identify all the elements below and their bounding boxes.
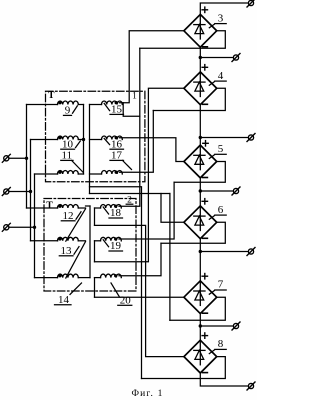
diode bridge 7 <box>184 281 217 314</box>
input terminal 3 <box>4 225 9 230</box>
svg-text:4: 4 <box>218 70 224 82</box>
winding 16 polarity dot <box>115 136 118 139</box>
bridge 4 diode symbol <box>199 72 201 97</box>
wire winding 13 right lead <box>78 240 85 242</box>
node tap 4-5 <box>199 136 202 139</box>
wire winding 9 to star rail <box>78 104 83 106</box>
winding 19 coil <box>101 237 122 240</box>
bridge 8 minus mark <box>203 372 208 374</box>
svg-text:T: T <box>46 200 53 211</box>
bridge 3 plus mark <box>202 9 207 11</box>
diode bridge 6 <box>184 206 217 239</box>
wire winding 20 left lead <box>95 277 101 279</box>
svg-text:3: 3 <box>218 12 224 24</box>
wire bridge 3 minus to bridge 4 plus <box>199 47 201 72</box>
svg-text:7: 7 <box>218 279 224 291</box>
wire T2 middle rail <box>89 206 91 278</box>
winding 12 polarity dot <box>58 205 61 208</box>
wire winding 19 step to bridge 4 AC1 <box>95 88 184 261</box>
output terminal tap 6-7 <box>248 249 253 254</box>
node T1 star junction <box>82 138 85 141</box>
wire zigzag diagonal 13-14 <box>66 242 86 278</box>
winding 20 coil <box>101 274 122 277</box>
wire bus phase B vertical <box>30 140 32 241</box>
wire winding 17 dot to bridge 4 AC2 <box>120 111 154 173</box>
wire bus phase A vertical <box>26 105 28 209</box>
node tap 3-4 <box>199 56 202 59</box>
wire bridge 3 plus output <box>200 3 248 14</box>
svg-text:Фиг. 1: Фиг. 1 <box>131 389 163 399</box>
node input 3 junction <box>33 226 36 229</box>
wire winding 12 right lead <box>78 207 85 209</box>
wire input 3 to bus <box>9 226 35 228</box>
bridge 5 diode symbol <box>199 145 201 170</box>
winding 14 polarity dot <box>58 274 61 277</box>
wire winding 19 left lead <box>95 240 101 242</box>
wire winding 16 left lead <box>90 139 102 141</box>
bridge 4 plus mark <box>202 66 207 68</box>
wire bus B to winding 13 <box>31 240 58 242</box>
wire bus C to winding 14 <box>35 277 58 279</box>
label 16 <box>104 138 109 144</box>
wire winding 16 dot to bridge 5 AC1 <box>120 138 184 162</box>
bridge 7 diode symbol <box>199 281 201 306</box>
wire bridge 6 minus to bridge 7 plus <box>199 239 201 281</box>
wire winding 11 to star rail <box>78 173 83 175</box>
output terminal tap 3-4 <box>233 55 238 60</box>
transformer T1 dash-dot enclosure <box>46 91 145 181</box>
winding 13 coil <box>58 237 79 241</box>
winding 10 coil <box>58 136 79 140</box>
svg-text:T: T <box>48 90 55 101</box>
diode bridge 3 <box>184 14 217 47</box>
wire winding 19 step vertical <box>94 241 96 262</box>
node input 1 junction <box>25 157 28 160</box>
wire winding 18 left lead <box>95 207 101 209</box>
svg-text:5: 5 <box>218 143 224 155</box>
wire input 1 to bus <box>9 157 27 159</box>
label 15 <box>104 103 109 110</box>
wire winding 15 left lead <box>90 104 102 106</box>
bridge 3 AC2 wrap wire <box>140 31 226 48</box>
wire winding 16 branch to bridge 8 AC2 <box>90 187 142 379</box>
wire bridge 5 minus to bridge 6 plus <box>199 178 201 206</box>
wire bus to winding 11 <box>35 173 58 175</box>
wire tap 4-5 <box>200 137 248 139</box>
wire winding 19 dot to bridge 5 AC2 <box>119 182 174 239</box>
bridge 4 AC2 wrap wire <box>153 88 225 110</box>
wire to bridge 6 AC1 <box>161 194 184 223</box>
diode bridge 8 <box>184 340 217 373</box>
wire winding 14 right lead <box>78 277 90 279</box>
node tap 5-6 <box>199 189 202 192</box>
wire bus to winding 9 <box>27 104 58 106</box>
bridge 7 AC2 wrap wire <box>170 297 225 320</box>
output terminal tap 4-5 <box>248 135 253 140</box>
bridge 8 diode symbol <box>199 340 201 365</box>
output terminal tap 7-8 <box>233 323 238 328</box>
wire T1 secondary common vertical <box>89 105 91 194</box>
winding 19 polarity dot <box>114 237 117 240</box>
wire zigzag diagonal 12-13 <box>66 209 86 241</box>
node tap 6-7 <box>199 250 202 253</box>
diode bridge 5 <box>184 145 217 178</box>
wire winding 18 dot to bridge 3 AC2 <box>119 48 140 206</box>
bridge 6 diode symbol <box>199 206 201 231</box>
bridge 6 minus mark <box>203 237 208 239</box>
output terminal - <box>248 383 253 388</box>
winding 11 polarity dot <box>58 171 61 174</box>
wire winding 17 left lead <box>90 173 102 175</box>
wire bridge 7 minus to bridge 8 plus <box>199 314 201 341</box>
svg-text:1: 1 <box>132 91 137 101</box>
bridge 7 plus mark <box>202 275 207 277</box>
wire winding 18 step vertical <box>94 208 96 225</box>
wire bus to winding 10 <box>31 139 58 141</box>
wire winding 20 step vertical <box>94 278 96 298</box>
winding 9 polarity dot <box>58 101 61 104</box>
winding 17 polarity dot <box>115 171 118 174</box>
wire tap 3-4 <box>200 57 233 59</box>
wire T1 primary star rail <box>83 105 85 175</box>
winding 15 coil <box>102 101 123 105</box>
transformer T2 dash-dot enclosure <box>44 199 136 292</box>
winding 9 coil <box>58 101 79 105</box>
diode bridge 4 <box>184 72 217 105</box>
output terminal tap 5-6 <box>233 188 238 193</box>
winding 14 coil <box>58 274 79 278</box>
wire bridge 4 minus to bridge 5 plus <box>199 105 201 145</box>
wire to bridge 7 AC2 <box>169 194 171 321</box>
label 18 <box>103 207 108 214</box>
winding 16 coil <box>102 136 123 140</box>
wire bus A to winding 12 <box>27 207 58 209</box>
output terminal + <box>248 0 253 5</box>
wire tap 5-6 <box>200 190 233 192</box>
winding 18 coil <box>101 205 122 209</box>
winding 20 polarity dot <box>114 274 117 277</box>
winding 17 coil <box>102 171 123 175</box>
winding 10 polarity dot <box>58 136 61 139</box>
wire winding 15 dot to bridge 3 AC1 <box>120 31 184 103</box>
input terminal 1 <box>4 156 9 161</box>
bridge 3 diode symbol <box>199 14 201 39</box>
bridge 3 minus mark <box>203 46 208 48</box>
svg-text:8: 8 <box>218 338 224 350</box>
winding 12 coil <box>58 205 79 209</box>
bridge 5 minus mark <box>203 177 208 179</box>
winding 18 polarity dot <box>114 205 117 208</box>
bridge 6 plus mark <box>202 200 207 202</box>
wire link winding 15 to winding 18 <box>123 103 140 117</box>
bridge 8 AC2 wrap wire <box>142 357 226 379</box>
winding 15 polarity dot <box>115 101 118 104</box>
node tap 7-8 <box>199 324 202 327</box>
wire tap 6-7 <box>200 251 248 253</box>
bridge 8 plus mark <box>202 335 207 337</box>
wire winding 10 to star rail <box>78 139 83 141</box>
wire bridge 8 minus output <box>200 373 248 386</box>
wire winding 20 step to bridge 7 AC1 <box>95 296 184 298</box>
bridge 5 AC2 wrap wire <box>174 162 225 183</box>
wire input 2 to bus <box>9 191 31 193</box>
bridge 5 plus mark <box>203 142 208 144</box>
wire windings 15/17 common to bridges 6,7 <box>90 193 170 195</box>
label 19 <box>103 240 108 247</box>
wire bus phase C vertical <box>34 174 36 278</box>
bridge 6 AC2 wrap wire <box>161 222 225 243</box>
winding 11 coil <box>58 171 79 175</box>
wire winding 20 dot to bridge 6 AC2 <box>119 243 161 275</box>
bridge 7 minus mark <box>203 312 208 314</box>
node input 2 junction <box>29 190 32 193</box>
input terminal 2 <box>4 189 9 194</box>
winding 13 polarity dot <box>58 237 61 240</box>
svg-text:6: 6 <box>218 204 224 216</box>
wire winding 18 step to bridge 8 AC1 <box>95 225 184 356</box>
bridge 4 minus mark <box>203 103 208 105</box>
wire tap 7-8 <box>200 325 233 327</box>
